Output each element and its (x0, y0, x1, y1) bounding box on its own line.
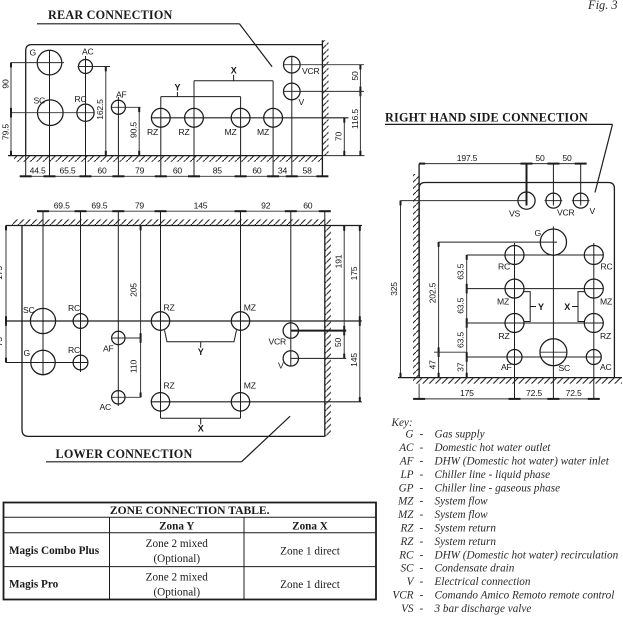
svg-text:Zone 1 direct: Zone 1 direct (280, 546, 341, 558)
dim 63.5 b right panel (456, 289, 467, 328)
right floor hatching (413, 378, 622, 384)
svg-text:-: - (420, 590, 424, 602)
svg-text:DHW (Domestic hot water) water: DHW (Domestic hot water) water inlet (434, 456, 610, 468)
zone Y bracket lower (165, 330, 237, 357)
svg-text:Magis Pro: Magis Pro (9, 579, 59, 591)
connection AF rear (111, 100, 125, 114)
svg-text:-: - (420, 523, 424, 535)
connection RZ left col right panel (505, 314, 524, 333)
svg-text:RZ: RZ (164, 303, 175, 313)
svg-text:Zone 2 mixed: Zone 2 mixed (146, 572, 209, 584)
svg-text:MZ: MZ (244, 381, 256, 391)
svg-text:50: 50 (562, 153, 572, 163)
svg-text:70: 70 (334, 132, 344, 142)
stem VCR/V column lower (290, 211, 292, 366)
connection AC lower (112, 391, 125, 404)
crosshair AC lower (111, 396, 141, 398)
svg-text:72.5: 72.5 (566, 388, 582, 398)
svg-text:MZ: MZ (397, 509, 414, 521)
connection V lower (283, 351, 298, 366)
svg-text:SC: SC (559, 363, 571, 373)
svg-text:-: - (420, 536, 424, 548)
bold bar VCR lower (291, 330, 346, 332)
zone X bracket right (564, 292, 584, 322)
lower panel outline (22, 226, 325, 437)
svg-text:AC: AC (82, 47, 94, 57)
dim 205 lower (129, 226, 141, 343)
svg-text:X: X (564, 302, 570, 312)
dim 63.5 c right panel (456, 323, 467, 362)
svg-text:202.5: 202.5 (428, 282, 438, 303)
svg-text:RZ: RZ (499, 331, 510, 341)
crosshair AF (112, 106, 141, 108)
zone Y bracket right (524, 292, 544, 322)
svg-text:-: - (420, 549, 424, 561)
svg-text:79: 79 (135, 165, 145, 175)
svg-text:G: G (535, 228, 542, 238)
svg-text:VCR: VCR (557, 208, 575, 218)
dim 202.5 right panel (428, 242, 439, 357)
svg-text:RC: RC (68, 345, 80, 355)
svg-text:G: G (24, 348, 31, 358)
svg-text:60: 60 (252, 165, 262, 175)
svg-text:Zona Y: Zona Y (159, 520, 194, 532)
svg-text:VCR: VCR (269, 337, 287, 347)
svg-text:RZ: RZ (147, 127, 158, 137)
dim 63.5 a right panel (456, 255, 467, 293)
svg-text:ZONE CONNECTION TABLE.: ZONE CONNECTION TABLE. (110, 504, 270, 517)
stem AF/AC column lower (117, 211, 119, 406)
svg-text:Key:: Key: (391, 417, 413, 429)
zone X bracket lower (161, 418, 241, 433)
svg-text:VCR: VCR (392, 590, 413, 602)
svg-text:-: - (420, 429, 424, 441)
svg-text:System return: System return (435, 536, 497, 548)
connection RZ1 lower (151, 312, 169, 330)
svg-text:Zona X: Zona X (292, 520, 328, 532)
svg-text:(Optional): (Optional) (153, 586, 200, 598)
svg-text:116.5: 116.5 (350, 109, 360, 129)
svg-text:(Optional): (Optional) (153, 553, 200, 565)
svg-text:V: V (299, 97, 305, 107)
svg-text:SC: SC (23, 305, 35, 315)
connection SC rear (38, 100, 64, 126)
svg-text:Y: Y (174, 83, 180, 93)
svg-text:3 bar discharge valve: 3 bar discharge valve (434, 603, 532, 615)
svg-text:RC: RC (75, 94, 87, 104)
svg-text:60: 60 (303, 201, 313, 211)
right top dimension chain (419, 153, 587, 164)
title LOWER CONNECTION (46, 416, 290, 462)
svg-text:50: 50 (535, 153, 545, 163)
stem MZ2 column (272, 81, 274, 177)
stem AC/RC column (85, 56, 87, 176)
connection G (gas) rear (37, 50, 62, 75)
dim 110 lower (129, 338, 141, 397)
stem RC/MZ/RZ/AC right column right panel (593, 243, 595, 399)
dim 50 lower right (333, 331, 344, 359)
svg-text:LP: LP (399, 469, 413, 481)
connection RZ1 rear (151, 108, 170, 127)
dim 50 rear right (350, 65, 361, 97)
stem RC/MZ/RZ/AF left column right panel (514, 243, 516, 399)
connection MZ2 rear (264, 108, 283, 127)
connection RC1 lower (73, 314, 88, 329)
rear floor hatching (14, 156, 322, 162)
svg-text:110: 110 (129, 360, 139, 374)
svg-text:-: - (420, 469, 424, 481)
crosshair VCR rear (284, 64, 364, 66)
dim 37 right panel (456, 357, 467, 378)
svg-text:-: - (420, 576, 424, 588)
svg-text:SC: SC (400, 563, 414, 575)
svg-text:MZ: MZ (244, 303, 256, 313)
connection SC lower (30, 308, 55, 333)
svg-text:175: 175 (460, 388, 474, 398)
svg-text:REAR CONNECTION: REAR CONNECTION (48, 8, 173, 22)
svg-text:AF: AF (116, 90, 127, 100)
svg-text:G: G (405, 429, 413, 441)
crosshair AC (78, 66, 110, 68)
dim 75 left lower (cut off) (0, 321, 6, 363)
svg-text:MZ: MZ (497, 297, 509, 307)
crosshair V right (572, 200, 590, 202)
connection G lower (31, 350, 55, 374)
stem V right (580, 164, 582, 206)
svg-text:-: - (420, 456, 424, 468)
stem G/SC column right panel (552, 227, 554, 399)
stem RZ1 column (160, 97, 162, 177)
svg-text:79: 79 (135, 201, 145, 211)
key legend (391, 417, 619, 615)
ext line SC level to dim (434, 351, 467, 353)
dim 70 rear right (334, 118, 345, 156)
row line RZ level right (467, 322, 604, 324)
lower ceiling line (6, 225, 362, 227)
stem G/SC column (49, 50, 51, 176)
svg-text:50: 50 (350, 71, 360, 81)
dim 175 left lower (cut off) (0, 226, 6, 326)
svg-text:RC: RC (498, 262, 510, 272)
svg-text:145: 145 (349, 353, 359, 367)
row line G-RC lower (6, 362, 89, 364)
svg-text:MZ: MZ (397, 496, 414, 508)
svg-text:MZ: MZ (257, 127, 269, 137)
svg-text:-: - (420, 496, 424, 508)
svg-text:162.5: 162.5 (95, 99, 105, 120)
svg-text:191: 191 (334, 254, 344, 268)
connection MZ1 lower (231, 312, 249, 330)
row line RZ-MZ bottom lower (151, 401, 362, 403)
svg-text:47: 47 (428, 360, 438, 370)
right wall line (418, 164, 420, 378)
svg-text:145: 145 (194, 201, 208, 211)
ground ext right of wall (322, 155, 364, 157)
svg-text:Magis Combo Plus: Magis Combo Plus (9, 545, 100, 557)
connection AC rear (79, 60, 93, 74)
svg-text:63.5: 63.5 (456, 263, 466, 279)
svg-text:RC: RC (68, 303, 80, 313)
rear wall hatching (322, 40, 328, 155)
connection VCR right (546, 193, 561, 208)
connection G right (540, 229, 566, 255)
svg-text:VS: VS (509, 209, 521, 219)
svg-text:37: 37 (456, 362, 466, 372)
svg-text:Electrical connection: Electrical connection (434, 576, 531, 588)
connection RC rear (77, 104, 94, 121)
stem VCR right (552, 164, 554, 206)
crosshair VCR right (545, 200, 563, 202)
svg-text:60: 60 (97, 165, 107, 175)
svg-text:VS: VS (401, 603, 414, 615)
svg-text:RZ: RZ (399, 523, 414, 535)
svg-text:RIGHT HAND SIDE CONNECTION: RIGHT HAND SIDE CONNECTION (385, 111, 588, 125)
svg-text:System return: System return (435, 523, 497, 535)
svg-text:MZ: MZ (225, 127, 237, 137)
right floor line (398, 377, 622, 379)
svg-text:Fig. 3: Fig. 3 (587, 0, 618, 12)
stem VS right (526, 164, 528, 206)
ext line G level (11, 62, 64, 64)
svg-text:Chiller line - liquid phase: Chiller line - liquid phase (435, 469, 551, 481)
svg-text:AC: AC (600, 362, 612, 372)
stem AF column (117, 97, 119, 176)
svg-text:-: - (420, 603, 424, 615)
title REAR CONNECTION (37, 8, 272, 67)
svg-text:RZ: RZ (164, 381, 175, 391)
svg-text:-: - (420, 482, 424, 494)
connection RZ2 lower (151, 393, 169, 411)
stem MZ column lower (240, 211, 242, 418)
row line RC level right (467, 254, 604, 256)
svg-text:X: X (231, 66, 237, 76)
svg-text:75: 75 (0, 337, 4, 347)
stem RZ2 column (193, 81, 195, 177)
dim 116.5 rear right (350, 91, 361, 155)
right wall hatching (413, 174, 419, 378)
svg-text:69.5: 69.5 (91, 201, 107, 211)
connection RC left col right panel (505, 246, 524, 265)
title RIGHT HAND SIDE CONNECTION (385, 111, 613, 193)
dim 90.5 rear (129, 107, 140, 155)
row line G level right (439, 241, 557, 243)
stem MZ1 column (240, 97, 242, 177)
zone Y bracket rear (161, 83, 241, 97)
dim 79.5 left rear (1, 113, 11, 156)
svg-text:Domestic hot water outlet: Domestic hot water outlet (434, 442, 552, 454)
connection AF lower (112, 331, 125, 344)
zone connection table (4, 503, 377, 600)
connection MZ1 rear (231, 108, 250, 127)
stem VCR/V column (291, 57, 293, 177)
svg-text:RC: RC (601, 262, 613, 272)
svg-text:60: 60 (173, 165, 183, 175)
connection V right (573, 193, 588, 208)
dim 191 lower right (334, 226, 345, 335)
row line AF-SC-AC level right (467, 356, 602, 358)
lower top dimension chain (37, 201, 331, 212)
svg-text:Chiller line - gaseous phase: Chiller line - gaseous phase (435, 482, 561, 494)
svg-text:325: 325 (389, 282, 399, 296)
svg-text:90.5: 90.5 (129, 122, 139, 138)
svg-text:Y: Y (198, 347, 204, 357)
dim 325 right panel (389, 201, 401, 378)
connection RC2 lower (73, 355, 88, 370)
svg-text:Gas supply: Gas supply (435, 429, 485, 441)
svg-text:92: 92 (261, 201, 271, 211)
svg-text:AC: AC (100, 402, 112, 412)
svg-text:Y: Y (538, 302, 544, 312)
svg-text:-: - (420, 563, 424, 575)
svg-text:Condensate drain: Condensate drain (435, 563, 515, 575)
svg-text:197.5: 197.5 (457, 153, 478, 163)
svg-text:MZ: MZ (600, 297, 612, 307)
valve VS right (518, 192, 535, 209)
dim 145 lower right (349, 321, 360, 402)
crosshair V rear (284, 90, 364, 92)
svg-text:79.5: 79.5 (1, 124, 11, 140)
right panel outline (419, 183, 614, 378)
ext line VS level (401, 200, 527, 202)
svg-text:System flow: System flow (435, 509, 489, 521)
connection VCR lower (283, 323, 298, 338)
lower ceiling hatching (12, 219, 331, 225)
stem RC column lower (80, 211, 82, 372)
svg-text:V: V (407, 576, 415, 588)
connection MZ left col right panel (505, 279, 524, 298)
svg-text:DHW (Domestic hot water) recir: DHW (Domestic hot water) recirculation (434, 549, 619, 561)
svg-text:System flow: System flow (435, 496, 489, 508)
svg-text:Comando Amico Remoto remote co: Comando Amico Remoto remote control (435, 590, 615, 602)
rear wall line (321, 40, 323, 176)
stem SC/G column lower (42, 211, 44, 375)
dim 90 left rear (1, 63, 11, 118)
stem RZ column lower (160, 211, 162, 418)
svg-text:AF: AF (501, 362, 512, 372)
svg-text:65.5: 65.5 (60, 165, 76, 175)
dim 175 lower right (349, 226, 360, 326)
svg-text:AF: AF (399, 456, 414, 468)
ext line SC RC level (11, 112, 94, 114)
svg-text:RC: RC (398, 549, 414, 561)
box edge ext to dim (25, 156, 27, 177)
svg-text:AF: AF (103, 344, 114, 354)
connection RZ2 rear (185, 108, 204, 127)
crosshair SC right (540, 351, 568, 353)
connection VCR rear (284, 56, 301, 73)
row line SC-RC-RZ-MZ lower (6, 320, 362, 322)
svg-text:50: 50 (333, 338, 343, 348)
lower wall line (324, 226, 326, 437)
svg-text:LOWER CONNECTION: LOWER CONNECTION (56, 447, 193, 461)
connection MZ2 lower (231, 393, 249, 411)
lower wall hatching (325, 226, 331, 437)
svg-text:RZ: RZ (600, 331, 611, 341)
dim 162.5 rear (95, 67, 106, 156)
svg-text:GP: GP (399, 482, 414, 494)
svg-text:RZ: RZ (399, 536, 414, 548)
svg-text:G: G (30, 48, 37, 58)
connection AC right panel (586, 350, 601, 365)
bar V lower (291, 357, 346, 359)
connection SC right panel (540, 339, 567, 366)
svg-text:44.5: 44.5 (30, 165, 46, 175)
svg-text:SC: SC (34, 96, 46, 106)
right bottom dimension chain (413, 384, 600, 399)
row line MZ level right (467, 288, 604, 290)
connection RZ right col right panel (584, 314, 603, 333)
stem wall column lower (324, 211, 326, 225)
row line RZ-MZ rear (151, 117, 348, 119)
svg-text:175: 175 (349, 266, 359, 280)
crosshair AF lower (111, 337, 141, 339)
svg-text:V: V (590, 206, 596, 216)
dim 47 right panel (428, 352, 439, 377)
rear panel outline (8, 45, 322, 156)
svg-text:Zone 2 mixed: Zone 2 mixed (146, 538, 209, 550)
svg-text:34: 34 (278, 165, 288, 175)
svg-text:90: 90 (1, 79, 11, 89)
svg-text:175: 175 (0, 266, 4, 280)
svg-text:72.5: 72.5 (526, 388, 542, 398)
rear bottom dimension chain (20, 165, 329, 176)
connection RC right col right panel (584, 246, 603, 265)
svg-text:205: 205 (129, 283, 139, 297)
svg-text:69.5: 69.5 (54, 201, 70, 211)
svg-text:Zone 1 direct: Zone 1 direct (280, 579, 341, 591)
zone X bracket rear (194, 66, 273, 81)
svg-text:63.5: 63.5 (456, 297, 466, 313)
svg-text:RZ: RZ (179, 127, 190, 137)
svg-text:X: X (198, 424, 204, 434)
svg-text:V: V (278, 361, 284, 371)
connection AF right panel (507, 350, 522, 365)
svg-text:63.5: 63.5 (456, 332, 466, 348)
svg-text:-: - (420, 442, 424, 454)
svg-text:-: - (420, 509, 424, 521)
svg-text:VCR: VCR (302, 66, 320, 76)
svg-text:AC: AC (398, 442, 414, 454)
svg-text:85: 85 (213, 165, 223, 175)
connection V rear (284, 83, 301, 100)
connection MZ right col right panel (584, 279, 603, 298)
svg-text:58: 58 (303, 165, 313, 175)
